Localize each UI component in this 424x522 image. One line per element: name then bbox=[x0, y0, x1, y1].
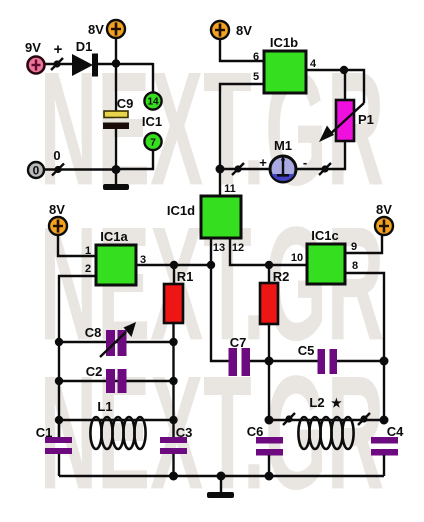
svg-text:R1: R1 bbox=[177, 269, 194, 284]
wire node G to C5 bbox=[269, 360, 318, 362]
svg-text:12: 12 bbox=[232, 242, 244, 254]
junction left C8 row bbox=[55, 338, 63, 346]
pin 9 label bbox=[351, 241, 357, 253]
label P1 bbox=[358, 112, 374, 127]
label IC1a bbox=[100, 229, 128, 244]
pin 2 label bbox=[85, 263, 91, 275]
pin 1 label bbox=[85, 245, 91, 257]
wire node D to pin11 bbox=[219, 169, 221, 196]
svg-text:0: 0 bbox=[53, 148, 60, 163]
svg-text:★: ★ bbox=[331, 396, 342, 410]
svg-text:9: 9 bbox=[351, 241, 357, 253]
pin 10 label bbox=[291, 252, 303, 264]
wire pin4 to node C bbox=[306, 69, 344, 71]
pin 11 label bbox=[224, 183, 236, 195]
wire pin13 down bbox=[210, 238, 212, 265]
label C4 bbox=[387, 424, 404, 439]
svg-text:9V: 9V bbox=[25, 40, 41, 55]
wire R1 bottom to right rail bbox=[172, 323, 174, 342]
svg-text:C6: C6 bbox=[247, 424, 264, 439]
probe mark on 0 wire bbox=[52, 164, 64, 176]
probe mark on 9V wire bbox=[51, 58, 63, 70]
svg-text:8V: 8V bbox=[236, 23, 252, 38]
label + polarity bbox=[54, 41, 63, 58]
wire C8 row bbox=[59, 341, 173, 343]
label D1 bbox=[76, 39, 93, 54]
svg-text:1: 1 bbox=[85, 245, 91, 257]
op-amp IC1b bbox=[264, 51, 306, 93]
svg-text:C7: C7 bbox=[230, 335, 247, 350]
svg-text:C3: C3 bbox=[176, 425, 193, 440]
pin 7 circle of IC1 bbox=[144, 133, 161, 150]
svg-text:8V: 8V bbox=[376, 202, 392, 217]
node F junction bbox=[265, 261, 273, 269]
node R1-top junction bbox=[170, 261, 178, 269]
terminal 8V mid-left bbox=[49, 217, 67, 235]
terminal 8V top-left bbox=[107, 20, 125, 38]
ground bottom bbox=[207, 476, 234, 498]
pin 12 label bbox=[232, 242, 244, 254]
svg-text:L2: L2 bbox=[309, 395, 324, 410]
wire 8V to node A bbox=[115, 38, 117, 64]
wire pin2 to left rail bbox=[59, 276, 96, 342]
node B junction bbox=[112, 165, 121, 174]
label 9V bbox=[25, 40, 41, 55]
inductor L2 bbox=[298, 417, 353, 449]
svg-text:IC1c: IC1c bbox=[311, 228, 338, 243]
watermark row 2 bbox=[40, 193, 385, 375]
node H junction bbox=[380, 357, 389, 366]
probe mark left of L2 bbox=[283, 413, 295, 425]
svg-text:IC1b: IC1b bbox=[270, 35, 298, 50]
capacitor C6 bbox=[256, 437, 283, 476]
wire node A to pin14 bbox=[152, 63, 154, 93]
wire pin8 to right rail bbox=[345, 273, 384, 361]
junction left C2 row bbox=[55, 377, 63, 385]
resistor R2 bbox=[260, 283, 278, 324]
junction right L1 row bbox=[169, 416, 177, 424]
wire L1 row bbox=[59, 419, 173, 421]
junction C6 bottom bbox=[265, 472, 274, 481]
label 8V mid-right bbox=[376, 202, 392, 217]
svg-text:10: 10 bbox=[291, 252, 303, 264]
wire node H down to L2 row bbox=[383, 361, 385, 420]
svg-text:R2: R2 bbox=[273, 269, 290, 284]
wire R2 bottom bbox=[268, 324, 270, 361]
wire node A down to C9 bbox=[115, 63, 117, 112]
wire node E down to C7 bbox=[211, 265, 229, 361]
terminal 0 bbox=[28, 162, 44, 178]
wire 8V to pin1 bbox=[58, 235, 96, 256]
bottom rail bbox=[59, 475, 384, 477]
wire pin9 to 8V bbox=[345, 235, 382, 253]
wire C9 to node B bbox=[115, 129, 117, 169]
resistor R1 bbox=[164, 284, 183, 323]
label plus M1 bbox=[259, 155, 267, 170]
junction left L1 row bbox=[55, 416, 63, 424]
label IC1 bbox=[142, 114, 162, 129]
capacitor C4 bbox=[371, 437, 398, 476]
svg-text:8V: 8V bbox=[49, 202, 65, 217]
wire L2 row bbox=[269, 419, 384, 421]
svg-text:-: - bbox=[303, 155, 307, 170]
op-amp IC1c bbox=[307, 244, 345, 284]
node A junction bbox=[112, 59, 120, 67]
wire node C to P1 top bbox=[344, 70, 346, 100]
label R2 bbox=[273, 269, 290, 284]
label L1 bbox=[97, 399, 112, 414]
probe mark left of M1 bbox=[232, 163, 244, 175]
pin 4 label bbox=[310, 58, 317, 70]
svg-text:D1: D1 bbox=[76, 39, 93, 54]
node E junction bbox=[207, 261, 215, 269]
probe mark right of M1 bbox=[319, 163, 331, 175]
label C3 bbox=[176, 425, 193, 440]
label 8V top-right bbox=[236, 23, 252, 38]
svg-text:P1: P1 bbox=[358, 112, 374, 127]
wire pin5 down to M1 node bbox=[220, 84, 264, 169]
capacitor C1 bbox=[45, 420, 72, 476]
svg-text:IC1a: IC1a bbox=[100, 229, 128, 244]
wire P1 bottom to M1 minus bbox=[296, 141, 345, 169]
junction ground stub bbox=[217, 472, 226, 481]
svg-text:IC1: IC1 bbox=[142, 114, 162, 129]
svg-text:8: 8 bbox=[352, 260, 358, 272]
wire pin12 to node F bbox=[230, 238, 269, 265]
svg-text:2: 2 bbox=[85, 263, 91, 275]
inductor L1 bbox=[90, 417, 145, 449]
capacitor C3 bbox=[160, 437, 187, 476]
label IC1c bbox=[311, 228, 338, 243]
meter M1 bbox=[270, 155, 296, 182]
node C junction bbox=[340, 66, 348, 74]
svg-text:C1: C1 bbox=[36, 425, 53, 440]
pin 3 label bbox=[140, 254, 146, 266]
op-amp IC1a bbox=[96, 245, 136, 285]
svg-text:C9: C9 bbox=[117, 96, 134, 111]
wire R1 top bbox=[173, 265, 175, 284]
terminal 9V bbox=[28, 57, 45, 74]
right rail with taps bbox=[172, 342, 174, 437]
trimmer capacitor C8 bbox=[100, 322, 136, 357]
pin 5 label bbox=[253, 71, 259, 83]
label IC1b bbox=[270, 35, 298, 50]
pin 14 circle of IC1 bbox=[144, 92, 161, 109]
wire pin7 to node B bbox=[116, 150, 153, 169]
node D junction bbox=[216, 165, 225, 174]
wire node F to pin10 bbox=[269, 264, 307, 266]
wire C5 to right rail bbox=[337, 360, 384, 362]
wire node C to wiper bbox=[344, 70, 364, 103]
wire 9V to diode bbox=[44, 63, 73, 65]
label C8 bbox=[85, 325, 102, 340]
svg-text:13: 13 bbox=[213, 242, 225, 254]
svg-text:7: 7 bbox=[150, 138, 156, 149]
potentiometer P1 bbox=[336, 100, 354, 141]
svg-text:5: 5 bbox=[253, 71, 259, 83]
svg-text:C5: C5 bbox=[298, 343, 315, 358]
svg-text:C4: C4 bbox=[387, 424, 404, 439]
terminal 8V top-right bbox=[211, 21, 229, 39]
capacitor C2 bbox=[106, 369, 127, 393]
pin 6 label bbox=[253, 51, 259, 63]
svg-text:6: 6 bbox=[253, 51, 259, 63]
svg-text:C8: C8 bbox=[85, 325, 102, 340]
node G junction bbox=[265, 357, 274, 366]
label C7 bbox=[230, 335, 247, 350]
capacitor C7 bbox=[229, 348, 251, 376]
label C5 bbox=[298, 343, 315, 358]
wire 0 to node B bbox=[44, 168, 116, 170]
svg-text:0: 0 bbox=[33, 164, 40, 178]
junction left L2 row bbox=[265, 416, 274, 425]
junction C3 bottom bbox=[169, 472, 178, 481]
wire diode to node A bbox=[98, 63, 153, 65]
label IC1d bbox=[167, 203, 195, 218]
capacitor C5 bbox=[318, 349, 338, 374]
svg-text:IC1d: IC1d bbox=[167, 203, 195, 218]
wire node G down to L2 row bbox=[268, 361, 270, 420]
label 8V mid-left bbox=[49, 202, 65, 217]
diode D1 bbox=[72, 54, 98, 77]
ground top bbox=[103, 169, 129, 190]
svg-text:M1: M1 bbox=[274, 138, 292, 153]
svg-text:11: 11 bbox=[224, 183, 236, 195]
op-amp IC1d bbox=[201, 196, 241, 238]
svg-text:L1: L1 bbox=[97, 399, 112, 414]
P1 wiper arrow bbox=[319, 103, 364, 142]
label 8V top-left bbox=[88, 22, 104, 37]
label C1 bbox=[36, 425, 53, 440]
pin 13 label bbox=[213, 242, 225, 254]
svg-text:C2: C2 bbox=[86, 364, 103, 379]
label C6 bbox=[247, 424, 264, 439]
label L2 bbox=[309, 395, 342, 410]
label C9 bbox=[117, 96, 134, 111]
label R1 bbox=[177, 269, 194, 284]
svg-text:+: + bbox=[54, 41, 63, 58]
label C2 bbox=[86, 364, 103, 379]
label M1 bbox=[274, 138, 292, 153]
watermark row 3 bbox=[40, 342, 385, 522]
capacitor C9 bbox=[103, 111, 129, 129]
wire C7 row bbox=[249, 360, 269, 362]
probe mark right of L2 bbox=[358, 413, 370, 425]
wire pin3 to node E bbox=[136, 264, 211, 266]
svg-text:4: 4 bbox=[310, 58, 317, 70]
pin 8 label bbox=[352, 260, 358, 272]
label minus M1 bbox=[303, 155, 307, 170]
junction right C2 row bbox=[169, 377, 177, 385]
junction right C8 row bbox=[169, 338, 177, 346]
terminal 8V mid-right bbox=[375, 217, 393, 235]
left rail with taps bbox=[58, 342, 60, 437]
junction right L2 row bbox=[380, 416, 389, 425]
watermark row 1 bbox=[40, 38, 385, 220]
wire 8V to pin6 bbox=[220, 39, 264, 61]
svg-text:8V: 8V bbox=[88, 22, 104, 37]
wire R2 top bbox=[268, 265, 270, 283]
wire M1 left bbox=[220, 168, 270, 170]
svg-text:+: + bbox=[259, 155, 267, 170]
svg-text:14: 14 bbox=[147, 97, 159, 108]
label 0 bbox=[53, 148, 60, 163]
wire C2 row bbox=[59, 380, 173, 382]
